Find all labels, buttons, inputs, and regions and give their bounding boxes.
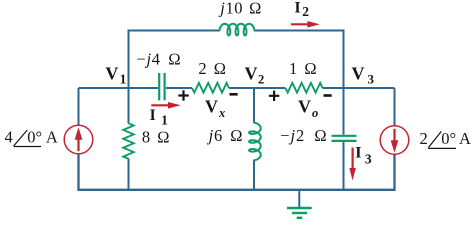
svg-text:2: 2	[420, 129, 428, 148]
wire j6 branch upper	[253, 88, 255, 123]
current arrow I3	[349, 148, 356, 181]
inductor L1 j10 ohm (top)	[219, 24, 254, 36]
wire middle: left end to capacitor C1	[79, 87, 159, 89]
polarity minus of Vo	[324, 94, 332, 97]
wire left branch upper (to source IS1)	[78, 88, 80, 125]
wire top-left run (V1 up and across to inductor)	[129, 31, 220, 89]
svg-text:1 Ω: 1 Ω	[289, 59, 317, 78]
inductor L2 j6 ohm (vertical)	[249, 123, 261, 161]
wire middle: R1 through node V2 to R2	[229, 87, 286, 89]
svg-text:j10 Ω: j10 Ω	[218, 0, 262, 17]
current source IS1 (left, 4 angle 0 A, arrow up)	[64, 125, 93, 154]
wire bottom run with left and right risers	[79, 154, 395, 190]
wire -j2 branch lower (C2 to bottom)	[343, 142, 345, 190]
resistor R3 8 ohm (vertical)	[123, 123, 133, 159]
capacitor C2 -j2 ohm (shunt, horizontal plates)	[332, 136, 357, 141]
current arrow I1	[151, 102, 180, 109]
wire 8-ohm branch lower	[128, 159, 130, 190]
polarity plus of Vo	[269, 91, 279, 101]
svg-text:A: A	[46, 128, 58, 147]
source label 2 angle 0 A	[420, 129, 472, 149]
polarity plus of Vx	[178, 90, 188, 100]
current source IS2 (right, 2 angle 0 A, arrow down)	[380, 126, 409, 155]
wire ground stub	[298, 189, 300, 207]
svg-text:−j2 Ω: −j2 Ω	[280, 126, 327, 145]
svg-text:j6 Ω: j6 Ω	[207, 126, 244, 145]
ground	[287, 208, 312, 218]
wire -j2 branch upper (V3 to C2)	[343, 88, 345, 135]
wire j6 branch lower	[253, 160, 255, 190]
svg-text:−j4 Ω: −j4 Ω	[136, 50, 181, 69]
capacitor C1 -j4 ohm (series, vertical plates)	[159, 73, 164, 100]
svg-text:2 Ω: 2 Ω	[198, 59, 226, 78]
resistor R1 2 ohm	[192, 83, 229, 93]
svg-text:4: 4	[5, 128, 13, 147]
svg-text:8 Ω: 8 Ω	[142, 127, 170, 146]
current arrow I2	[291, 21, 320, 28]
svg-text:A: A	[459, 129, 471, 148]
resistor R2 1 ohm	[285, 83, 322, 93]
svg-text:0°: 0°	[441, 129, 456, 148]
wire middle: R2 through node V3 to right branch	[323, 87, 395, 89]
wire middle: C1 to R1	[166, 87, 192, 89]
svg-text:0°: 0°	[27, 128, 42, 147]
wire 8-ohm branch upper	[128, 88, 130, 123]
wire right branch upper (to source IS2)	[394, 88, 396, 126]
polarity minus of Vx	[230, 93, 238, 96]
wire top-right run (inductor to V3 down)	[254, 31, 343, 89]
source label 4 angle 0 A	[5, 128, 58, 147]
